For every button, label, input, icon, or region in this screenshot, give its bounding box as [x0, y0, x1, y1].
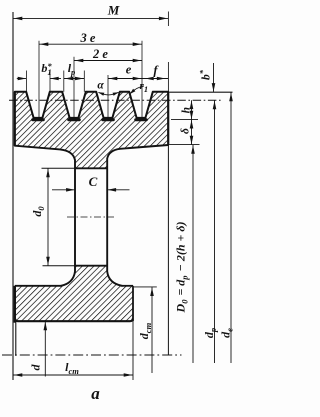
svg-text:M: M	[107, 3, 120, 18]
svg-text:C: C	[89, 174, 98, 189]
svg-text:d: d	[29, 364, 43, 371]
svg-text:α: α	[97, 80, 104, 92]
svg-text:3 e: 3 e	[80, 31, 96, 45]
svg-text:a: a	[91, 384, 100, 403]
svg-text:b*1: b*1	[41, 61, 52, 77]
svg-text:e: e	[126, 63, 132, 77]
svg-text:h: h	[181, 107, 193, 113]
svg-text:2 e: 2 e	[92, 47, 108, 61]
svg-text:δ: δ	[180, 128, 192, 134]
